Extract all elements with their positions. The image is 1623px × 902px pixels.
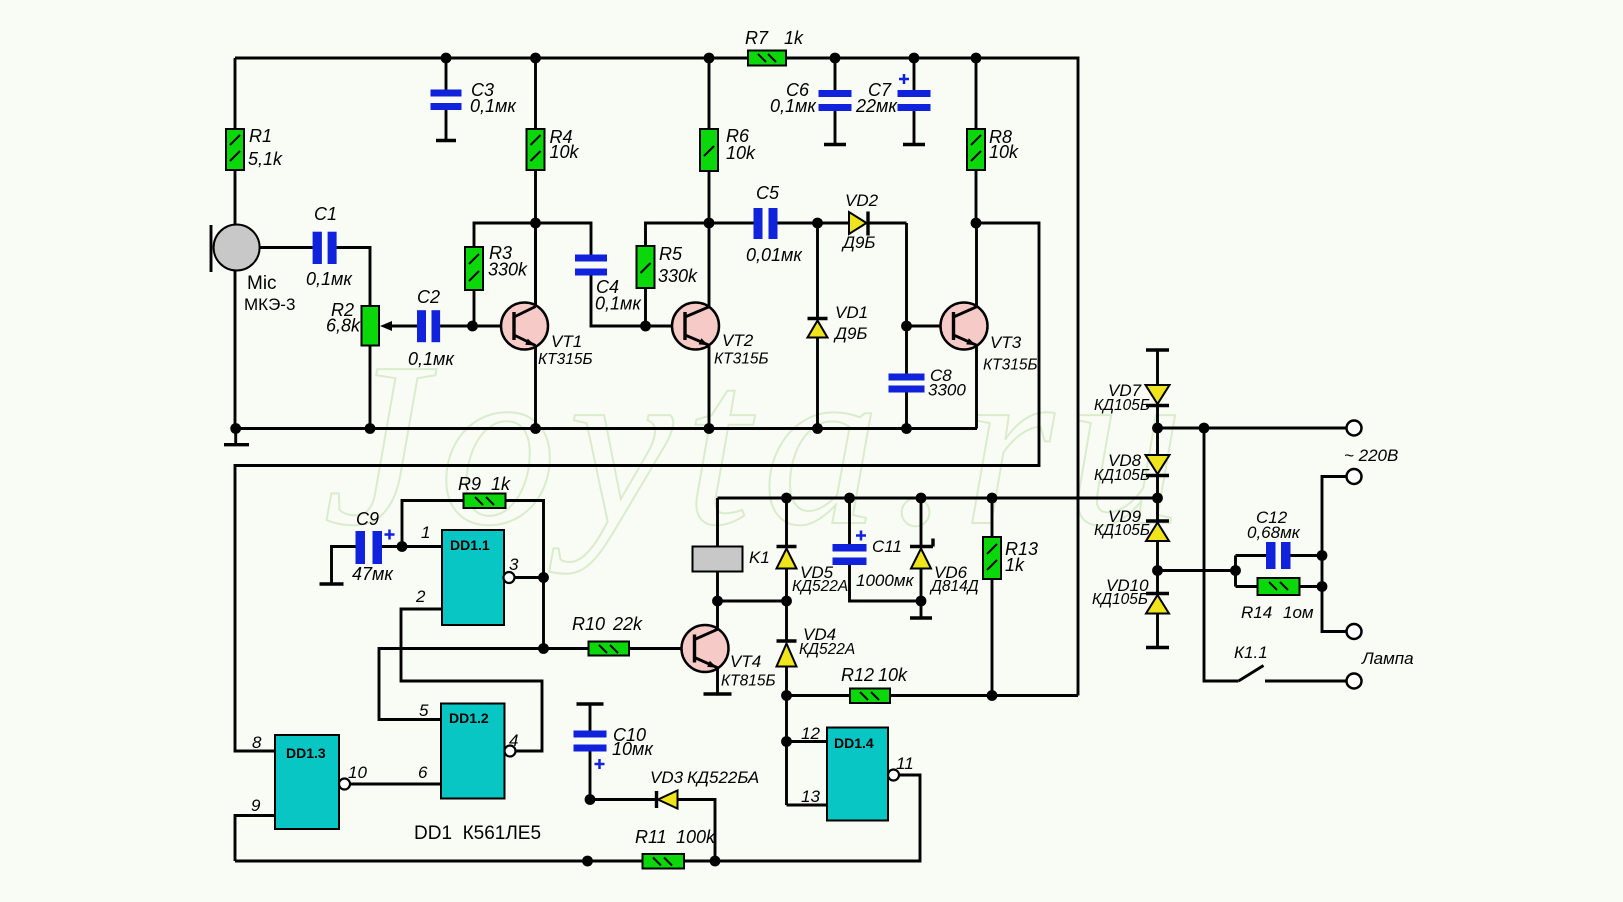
switch K1.1 [1204, 428, 1347, 681]
wire: T2 drop to parallel group and T3 [1317, 477, 1347, 632]
svg-text:1ом: 1ом [1283, 603, 1314, 622]
svg-text:МКЭ-3: МКЭ-3 [244, 295, 295, 314]
wire: VT2 collector [704, 218, 715, 307]
svg-text:10: 10 [348, 763, 367, 782]
wire: C2 arrow into R2 wiper [380, 321, 417, 331]
svg-text:1: 1 [421, 523, 430, 542]
svg-text:КТ315Б: КТ315Б [714, 351, 769, 368]
svg-text:0,01мк: 0,01мк [746, 245, 803, 265]
capacitor C7 electrolytic [855, 58, 931, 145]
transistor VT3 КТ315Б [941, 303, 1038, 374]
wire: mic to C1 [260, 246, 313, 249]
microphone Mic МКЭ-3 [211, 225, 295, 315]
wire: C1 to R2 [337, 248, 370, 307]
svg-text:5,1k: 5,1k [248, 149, 283, 169]
svg-text:КД105Б: КД105Б [1094, 467, 1150, 484]
svg-text:100k: 100k [676, 827, 716, 847]
capacitor C4 [536, 223, 646, 326]
svg-text:10k: 10k [989, 142, 1019, 162]
wire: regulated supply bus [718, 493, 1163, 504]
capacitor C3 [431, 58, 518, 141]
wire: VT3 collector to lower box feed [235, 223, 1039, 751]
capacitor C5 [709, 183, 818, 265]
svg-text:0,1мк: 0,1мк [770, 96, 817, 116]
svg-text:КТ815Б: КТ815Б [721, 673, 776, 690]
gate DD1.2 [418, 701, 518, 799]
svg-text:10мк: 10мк [612, 739, 654, 759]
svg-text:DD1.1: DD1.1 [450, 537, 490, 553]
svg-text:VT3: VT3 [990, 333, 1022, 352]
capacitor C10 electrolytic [574, 704, 655, 800]
svg-text:КД105Б: КД105Б [1092, 591, 1148, 608]
svg-text:R14: R14 [1241, 603, 1272, 622]
svg-text:К1.1: К1.1 [1234, 643, 1268, 662]
wire: pin10 to pin6 [350, 783, 441, 786]
resistor R12 [787, 665, 1079, 703]
resistor R2 trimmer [326, 300, 379, 346]
resistor R8 [967, 58, 1019, 223]
ground symbol main [224, 429, 249, 445]
svg-text:КД522А: КД522А [799, 641, 855, 658]
label Лампа [1361, 649, 1414, 668]
resistor R14 [1236, 578, 1323, 622]
svg-text:10k: 10k [878, 665, 908, 685]
wire: +V top rail [235, 53, 1078, 696]
svg-text:КД105Б: КД105Б [1094, 522, 1150, 539]
diode VD1 Д9Б [808, 223, 869, 429]
resistor R9 [402, 474, 544, 578]
diode VD4 КД522А [777, 601, 856, 701]
svg-text:9: 9 [251, 796, 261, 815]
wire: R3 top link [474, 223, 536, 247]
svg-text:11: 11 [896, 754, 914, 773]
wire: AC terminal 1 link [1152, 423, 1346, 434]
zener VD6 Д814Д [910, 498, 979, 618]
svg-text:K1: K1 [749, 548, 770, 567]
terminal T3 [1347, 624, 1362, 639]
label DD1 К561ЛЕ5 [414, 823, 541, 844]
capacitor C11 electrolytic [833, 498, 922, 601]
svg-text:VT1: VT1 [551, 332, 582, 351]
svg-text:Д9Б: Д9Б [833, 324, 868, 343]
resistor R4 [527, 58, 580, 307]
svg-text:22мк: 22мк [855, 96, 898, 116]
svg-text:DD1.2: DD1.2 [449, 710, 489, 726]
svg-text:1k: 1k [1005, 555, 1025, 575]
svg-text:C2: C2 [417, 287, 440, 307]
svg-text:Д814Д: Д814Д [929, 578, 979, 595]
svg-text:VT2: VT2 [722, 331, 754, 350]
svg-text:0,1мк: 0,1мк [470, 96, 517, 116]
diode VD3 КД522БА [585, 768, 760, 861]
svg-text:КТ315Б: КТ315Б [538, 351, 593, 368]
wire: VT1 collector [530, 218, 541, 307]
capacitor C1 [306, 204, 353, 289]
transistor VT4 КТ815Б [682, 625, 776, 690]
wire: bottom timing rail [235, 775, 920, 866]
wire: VT3 base link [907, 325, 941, 328]
wire: VT1 emitter [534, 346, 537, 429]
diode VD7 КД105Б [1094, 381, 1170, 428]
wire: R2 to ground rail [369, 346, 372, 429]
diode VD10 КД105Б [1092, 571, 1169, 647]
svg-text:Лампа: Лампа [1361, 649, 1414, 668]
svg-text:R11: R11 [635, 827, 667, 847]
svg-text:VT4: VT4 [730, 652, 761, 671]
watermark Joyta.ru [323, 314, 1196, 574]
capacitor C2 [408, 287, 455, 369]
svg-text:Mic: Mic [247, 273, 277, 294]
resistor R13 [983, 498, 1038, 696]
svg-text:0,1мк: 0,1мк [306, 269, 353, 289]
wire: R1 branch [234, 58, 237, 129]
svg-text:6: 6 [418, 763, 428, 782]
wire: R1 to microphone [234, 170, 237, 225]
svg-text:КД522А: КД522А [792, 578, 848, 595]
resistor R5 [637, 223, 710, 331]
svg-text:DD1.4: DD1.4 [834, 735, 874, 751]
resistor R6 [700, 58, 756, 223]
svg-text:КД522БА: КД522БА [687, 768, 759, 787]
svg-text:1k: 1k [491, 474, 511, 494]
resistor R10 [544, 614, 682, 656]
svg-text:КД105Б: КД105Б [1094, 397, 1150, 414]
wire: pin9 to output rail [235, 816, 275, 862]
transistor VT1 КТ315Б [501, 303, 593, 369]
svg-text:КТ315Б: КТ315Б [983, 357, 1038, 374]
diode VD2 Д9Б [818, 191, 907, 252]
svg-text:0,1мк: 0,1мк [408, 349, 455, 369]
svg-text:5: 5 [419, 701, 429, 720]
svg-text:3: 3 [509, 555, 519, 574]
svg-text:1k: 1k [784, 28, 804, 48]
wire: relay to VD5 node [712, 596, 792, 607]
wire: pins 12 13 tie [781, 696, 827, 806]
wire: C12 R14 node link [1152, 565, 1241, 576]
resistor R11 [635, 827, 716, 869]
wire: R3 bottom to base node [473, 290, 476, 326]
diode VD9 КД105Б [1094, 498, 1169, 571]
svg-text:2: 2 [415, 587, 426, 606]
wire: C9 to DD1.1 pin 1 [382, 541, 442, 552]
svg-text:13: 13 [801, 787, 820, 806]
svg-text:22k: 22k [612, 614, 643, 634]
capacitor C12 [1236, 508, 1323, 587]
svg-text:R5: R5 [659, 244, 683, 264]
svg-text:R7: R7 [745, 28, 769, 48]
svg-text:C1: C1 [314, 204, 337, 224]
svg-text:6,8k: 6,8k [326, 316, 361, 336]
svg-text:R12: R12 [841, 665, 874, 685]
wire: C4 node to VT2 base [646, 325, 673, 328]
resistor R7 [745, 28, 804, 66]
svg-text:C9: C9 [356, 509, 379, 529]
svg-text:47мк: 47мк [352, 564, 394, 584]
svg-text:4: 4 [509, 731, 518, 750]
node: pin3 output [538, 572, 549, 654]
svg-text:C11: C11 [872, 537, 902, 556]
diode chain top terminal bar [1146, 350, 1169, 385]
wire: microphone to ground rail [234, 270, 237, 429]
svg-text:330k: 330k [658, 266, 698, 286]
svg-text:DD1 К561ЛЕ5: DD1 К561ЛЕ5 [414, 823, 541, 844]
capacitor C9 electrolytic [320, 509, 395, 584]
terminal T4 [1347, 674, 1362, 689]
transistor VT2 КТ315Б [672, 303, 769, 368]
wire: pin2 to pin4 feedback [401, 609, 542, 751]
wire: VD2 cathode down to C8 / VT3 base [901, 223, 912, 374]
label ~220V [1344, 446, 1398, 465]
gate DD1.4 [801, 724, 914, 821]
svg-text:0,68мк: 0,68мк [1247, 523, 1301, 542]
svg-text:Д9Б: Д9Б [841, 233, 876, 252]
resistor R1 [226, 126, 283, 170]
resistor R3 [465, 243, 528, 290]
gate DD1.3 [251, 733, 367, 829]
wire: VT3 emitter [975, 345, 978, 428]
svg-text:C5: C5 [756, 183, 780, 203]
svg-text:10k: 10k [550, 142, 580, 162]
wire: C2 to VT1 base [440, 321, 501, 332]
svg-text:10k: 10k [726, 143, 756, 163]
svg-text:330k: 330k [488, 260, 528, 280]
gate DD1.1 [415, 523, 544, 625]
diode VD5 КД522А [777, 498, 849, 601]
svg-text:~ 220В: ~ 220В [1344, 446, 1398, 465]
svg-text:VD1: VD1 [835, 303, 868, 322]
node: C5 / VD1 / VD2 junction [812, 218, 823, 229]
wire: VT4 collector [716, 601, 719, 629]
svg-text:VD3: VD3 [650, 768, 684, 787]
svg-text:R10: R10 [572, 614, 605, 634]
svg-text:1000мк: 1000мк [856, 571, 914, 590]
wire: VT2 emitter [708, 345, 711, 428]
svg-text:3300: 3300 [928, 381, 966, 400]
relay coil K1 [693, 498, 770, 601]
svg-text:0,1мк: 0,1мк [595, 294, 642, 314]
wire: pin3 node to pin5 [379, 649, 544, 720]
svg-text:DD1.3: DD1.3 [286, 745, 326, 761]
svg-text:VD2: VD2 [845, 191, 879, 210]
ground symbol VT4 emitter [704, 668, 732, 694]
svg-text:R1: R1 [249, 126, 272, 146]
svg-text:R9: R9 [458, 474, 481, 494]
diode VD8 КД105Б [1094, 428, 1170, 498]
terminal T1 [1347, 421, 1362, 436]
wire: VT3 collector to R8 [971, 218, 982, 307]
terminal T2 [1347, 469, 1362, 484]
capacitor C8 [889, 366, 967, 429]
capacitor C6 [770, 58, 852, 145]
diode chain bottom terminal bar [1146, 646, 1169, 649]
svg-text:8: 8 [252, 733, 262, 752]
wire: top ground rail [230, 423, 977, 434]
